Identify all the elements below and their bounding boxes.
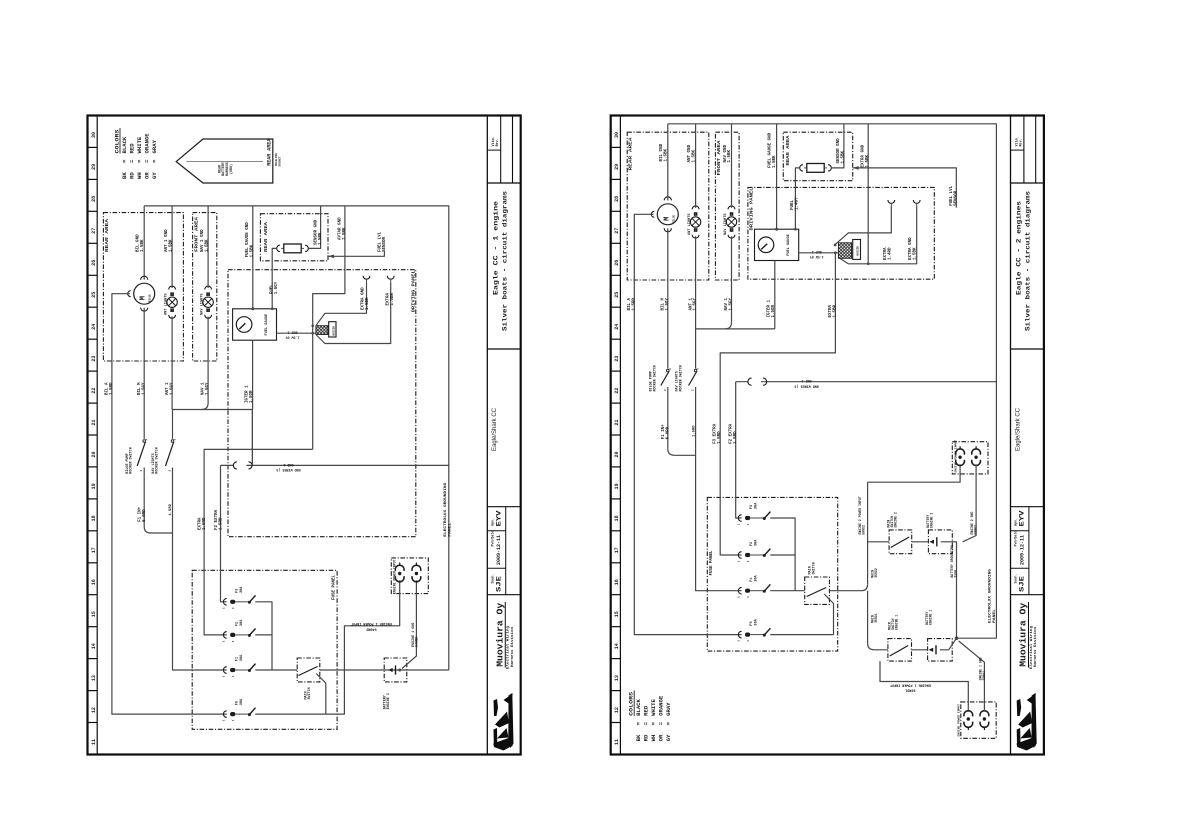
- svg-text:ANT LIGHTS: ANT LIGHTS: [165, 293, 169, 315]
- svg-text:FUEL GAUGE: FUEL GAUGE: [265, 313, 269, 335]
- svg-text:1.5BK: 1.5BK: [914, 247, 918, 260]
- svg-text:EXTRA GND: EXTRA GND: [362, 287, 366, 310]
- svg-text:RED: RED: [643, 705, 650, 716]
- svg-text:2x50: 2x50: [953, 570, 957, 578]
- svg-text:REAR AREA: REAR AREA: [265, 221, 269, 252]
- svg-text:Suun.: Suun.: [1014, 574, 1018, 584]
- svg-text:ENGINE POWER INPUT: ENGINE POWER INPUT: [393, 559, 397, 594]
- svg-text:19: 19: [91, 483, 97, 489]
- svg-text:12: 12: [614, 707, 620, 713]
- svg-text:EXTRA GND: EXTRA GND: [862, 144, 866, 167]
- svg-text:GY: GY: [665, 734, 672, 741]
- svg-text:BLACK: BLACK: [635, 698, 642, 715]
- svg-text:EXTRA GND: EXTRA GND: [909, 237, 913, 260]
- svg-text:Eagle CC - 1 engine: Eagle CC - 1 engine: [493, 201, 500, 295]
- svg-text:Rev.: Rev.: [496, 138, 500, 146]
- svg-text:Eagle CC - 2 engines: Eagle CC - 2 engines: [1016, 201, 1023, 295]
- svg-text:BK: BK: [635, 734, 642, 741]
- svg-text:FUEL LVL: FUEL LVL: [379, 231, 383, 252]
- svg-text:ELECTROLUX GROUNDING: ELECTROLUX GROUNDING: [444, 483, 448, 537]
- svg-text:SENSOR GND: SENSOR GND: [315, 219, 319, 245]
- svg-text:30A: 30A: [755, 574, 759, 581]
- svg-text:29: 29: [614, 164, 620, 170]
- svg-text:50BK2: 50BK2: [974, 525, 978, 535]
- svg-text:EXTRA: EXTRA: [884, 247, 888, 260]
- svg-text:30A: 30A: [240, 619, 244, 626]
- svg-text:16: 16: [91, 579, 97, 585]
- svg-text:Pvm/Date: Pvm/Date: [490, 531, 494, 547]
- svg-text:ENGINE 2: ENGINE 2: [894, 512, 898, 527]
- svg-text:ORANGE: ORANGE: [658, 695, 665, 716]
- svg-text:WH: WH: [650, 735, 657, 742]
- svg-text:F5: F5: [750, 621, 754, 625]
- svg-text:6.0RD: 6.0RD: [143, 509, 147, 522]
- svg-text:Silver boats - circuit diagram: Silver boats - circuit diagrams: [1025, 191, 1032, 331]
- svg-text:GRAY: GRAY: [151, 139, 158, 153]
- svg-text:WHITE: WHITE: [136, 136, 143, 153]
- svg-text:SENSOR: SENSOR: [383, 236, 387, 252]
- svg-text:2009-12-11: 2009-12-11: [495, 534, 502, 565]
- svg-text:F3: F3: [750, 505, 754, 509]
- svg-text:20: 20: [614, 451, 620, 457]
- svg-text:20: 20: [91, 451, 97, 457]
- svg-text:1.5BK: 1.5BK: [169, 239, 173, 252]
- svg-text:28: 28: [91, 196, 97, 202]
- svg-text:SJE: SJE: [1019, 576, 1026, 592]
- svg-text:Pvm/Date: Pvm/Date: [1014, 531, 1018, 547]
- svg-text:25: 25: [91, 292, 97, 298]
- svg-text:EXTRA: EXTRA: [829, 304, 833, 317]
- svg-text:1.5BK: 1.5BK: [366, 297, 370, 310]
- svg-text:1.5BK: 1.5BK: [319, 232, 323, 245]
- svg-text:REAR AREA: REAR AREA: [267, 138, 273, 166]
- svg-text:ANT LIGHTS: ANT LIGHTS: [688, 213, 692, 235]
- svg-text:ENGINE 1: ENGINE 1: [895, 615, 899, 630]
- svg-text:17: 17: [91, 547, 97, 553]
- svg-text:GND WIRES (3: GND WIRES (3: [276, 467, 300, 472]
- svg-text:ENGINE 1: ENGINE 1: [929, 610, 933, 625]
- svg-text:FRONT AREA: FRONT AREA: [194, 217, 200, 252]
- svg-text:1.5BK: 1.5BK: [866, 154, 870, 167]
- svg-text:1.5GY: 1.5GY: [142, 382, 146, 395]
- svg-text:1.5GY: 1.5GY: [694, 297, 698, 310]
- svg-text:F2 EXTRA: F2 EXTRA: [215, 509, 219, 530]
- svg-text:IGTER 1: IGTER 1: [768, 299, 772, 317]
- svg-text:1.4GY: 1.4GY: [796, 197, 800, 210]
- svg-text:BIL M: BIL M: [662, 297, 666, 310]
- svg-text:Apv.: Apv.: [1014, 518, 1018, 526]
- svg-text:2009-12-11: 2009-12-11: [1018, 534, 1025, 565]
- svg-text:BUZZER: BUZZER: [857, 246, 860, 256]
- svg-text:DRIVING PANEL: DRIVING PANEL: [749, 187, 755, 230]
- svg-text:ELECTROLUX GROUNDING: ELECTROLUX GROUNDING: [989, 569, 993, 623]
- svg-text:FUSE PANEL: FUSE PANEL: [331, 575, 337, 600]
- svg-text:PANEL: PANEL: [993, 609, 997, 623]
- svg-text:1.5BK: 1.5BK: [205, 239, 209, 252]
- svg-text:NAV LIGHTS: NAV LIGHTS: [201, 293, 205, 315]
- svg-text:1.5RD: 1.5RD: [734, 431, 738, 444]
- svg-text:ANT 1: ANT 1: [166, 382, 170, 395]
- svg-text:FUEL GAUGE GND: FUEL GAUGE GND: [769, 132, 773, 168]
- svg-text:1.5W GY: 1.5W GY: [286, 336, 300, 340]
- svg-text:BUZ 1: BUZ 1: [812, 250, 822, 254]
- svg-text:IGTER 1: IGTER 1: [246, 385, 250, 403]
- svg-text:BIL A: BIL A: [106, 382, 110, 395]
- svg-text:SOCKET: SOCKET: [279, 156, 282, 166]
- svg-text:30A: 30A: [755, 502, 759, 509]
- svg-text:Eagle/Shark CC: Eagle/Shark CC: [1015, 407, 1021, 451]
- svg-text:16: 16: [614, 579, 620, 585]
- svg-text:DRIVING PANEL: DRIVING PANEL: [411, 270, 417, 312]
- svg-text:30A: 30A: [240, 654, 244, 661]
- svg-text:F3: F3: [236, 589, 240, 593]
- svg-text:ROCKER SWITCH: ROCKER SWITCH: [679, 365, 683, 391]
- svg-text:1.5BK: 1.5BK: [773, 155, 777, 168]
- svg-text:1.5BK: 1.5BK: [250, 244, 254, 257]
- svg-text:26: 26: [91, 260, 97, 266]
- svg-text:50RD2: 50RD2: [862, 525, 866, 535]
- svg-text:1.5BK: 1.5BK: [842, 150, 846, 163]
- svg-text:EYV: EYV: [1019, 510, 1026, 526]
- svg-text:1.5GY: 1.5GY: [170, 382, 174, 395]
- svg-text:SENSOR: SENSOR: [955, 190, 959, 206]
- svg-text:FUSE PANEL: FUSE PANEL: [708, 550, 714, 575]
- svg-text:15: 15: [91, 611, 97, 617]
- svg-text:OR: OR: [144, 172, 151, 179]
- svg-text:SWITCH: SWITCH: [812, 562, 816, 574]
- svg-text:NAV LIGHTS: NAV LIGHTS: [724, 213, 728, 235]
- svg-text:F1 IN+: F1 IN+: [139, 506, 143, 522]
- svg-text:21: 21: [91, 419, 97, 425]
- svg-text:WHITE: WHITE: [650, 698, 657, 715]
- svg-text:BIL GND: BIL GND: [137, 234, 141, 252]
- svg-text:26: 26: [614, 260, 620, 266]
- svg-text:540BK: 540BK: [416, 636, 420, 647]
- svg-text:FUEL: FUEL: [271, 284, 275, 295]
- svg-text:18: 18: [614, 515, 620, 521]
- svg-text:50BK1: 50BK1: [982, 671, 986, 681]
- svg-text:25: 25: [614, 292, 620, 298]
- svg-text:1.5RD: 1.5RD: [203, 517, 207, 530]
- svg-text:BIL A: BIL A: [628, 297, 632, 310]
- svg-text:15: 15: [614, 611, 620, 617]
- svg-text:ENGINE 1 POWER INPUT: ENGINE 1 POWER INPUT: [890, 682, 931, 686]
- svg-text:30A: 30A: [240, 586, 244, 593]
- svg-text:1.5RD: 1.5RD: [718, 431, 722, 444]
- svg-text:GND WIRES (3: GND WIRES (3: [794, 383, 818, 388]
- svg-text:14: 14: [91, 643, 97, 649]
- svg-text:Eagle/Shark CC: Eagle/Shark CC: [492, 407, 498, 451]
- svg-text:28: 28: [614, 196, 620, 202]
- svg-text:1.5BR: 1.5BR: [834, 304, 838, 317]
- svg-text:ROCKER SWITCH: ROCKER SWITCH: [130, 447, 134, 473]
- svg-text:29: 29: [91, 164, 97, 170]
- svg-text:M: M: [140, 296, 148, 300]
- svg-text:REAR AREA: REAR AREA: [787, 135, 791, 166]
- svg-text:F5: F5: [236, 701, 240, 705]
- svg-text:ENGINE POWER INPUT: ENGINE POWER INPUT: [955, 440, 958, 473]
- svg-text:24: 24: [91, 324, 97, 330]
- svg-text:GY: GY: [151, 172, 158, 179]
- svg-text:COLORS: COLORS: [628, 691, 635, 716]
- svg-text:SJE: SJE: [496, 576, 503, 592]
- svg-text:1.4RD: 1.4RD: [889, 247, 893, 260]
- svg-text:1.5BK: 1.5BK: [343, 227, 347, 240]
- svg-text:NAV 1 GND: NAV 1 GND: [201, 229, 205, 252]
- svg-text:11: 11: [91, 739, 97, 745]
- svg-text:EXTRA: EXTRA: [387, 292, 391, 305]
- svg-text:12: 12: [91, 707, 97, 713]
- svg-text:BILGE: BILGE: [149, 294, 152, 302]
- svg-text:F3 EXTRA: F3 EXTRA: [714, 423, 718, 444]
- svg-text:30: 30: [614, 132, 620, 138]
- svg-text:RED: RED: [129, 143, 136, 154]
- svg-text:ENGINE 2: ENGINE 2: [929, 513, 933, 528]
- svg-text:F2 EXTRA: F2 EXTRA: [730, 423, 734, 444]
- svg-text:35RD1: 35RD1: [874, 613, 878, 623]
- svg-text:30: 30: [91, 132, 97, 138]
- svg-text:11: 11: [614, 739, 620, 745]
- svg-text:1.5GR: 1.5GR: [772, 304, 776, 317]
- svg-text:NAV 1: NAV 1: [725, 297, 729, 310]
- svg-text:Suun.: Suun.: [490, 574, 494, 584]
- svg-text:BUZZER: BUZZER: [333, 326, 336, 336]
- svg-text:1.5BK: 1.5BK: [692, 149, 696, 162]
- svg-text:WH: WH: [136, 172, 143, 179]
- svg-text:(GRO): (GRO): [229, 164, 233, 174]
- svg-text:NAV 1: NAV 1: [202, 382, 206, 395]
- svg-text:FUEL: FUEL: [791, 199, 795, 210]
- svg-text:22: 22: [614, 388, 620, 394]
- svg-text:FRONT AREA: FRONT AREA: [716, 140, 722, 175]
- svg-text:SWITCH: SWITCH: [308, 687, 312, 699]
- svg-text:6.0RD: 6.0RD: [667, 426, 671, 439]
- svg-text:1.5RD: 1.5RD: [110, 382, 114, 395]
- svg-text:1.5RD: 1.5RD: [693, 425, 697, 437]
- svg-text:1.5GY: 1.5GY: [275, 281, 279, 294]
- svg-text:23: 23: [614, 356, 620, 362]
- svg-text:30A: 30A: [755, 539, 759, 546]
- svg-text:M: M: [663, 217, 671, 221]
- svg-text:50RD1: 50RD1: [905, 688, 915, 692]
- svg-text:F1: F1: [236, 657, 240, 661]
- svg-text:1.5GY: 1.5GY: [730, 297, 734, 310]
- svg-text:REAR AREA: REAR AREA: [628, 137, 634, 170]
- svg-text:Muoviura Oy: Muoviura Oy: [495, 603, 506, 667]
- svg-text:REAR AREA: REAR AREA: [104, 219, 110, 252]
- svg-text:RD: RD: [129, 172, 136, 179]
- svg-text:SENSOR GND: SENSOR GND: [837, 138, 841, 164]
- svg-text:19: 19: [614, 483, 620, 489]
- svg-text:Apv.: Apv.: [490, 518, 494, 526]
- svg-text:F2: F2: [750, 542, 754, 546]
- svg-text:17: 17: [614, 547, 620, 553]
- svg-text:FUEL GAUGE GND: FUEL GAUGE GND: [246, 222, 250, 258]
- svg-text:Harness Division: Harness Division: [1033, 626, 1038, 667]
- svg-text:BILGE: BILGE: [672, 214, 675, 222]
- svg-text:F1 IN+: F1 IN+: [662, 424, 666, 440]
- svg-text:30A: 30A: [755, 618, 759, 625]
- svg-text:GND 1: GND 1: [283, 462, 293, 466]
- svg-text:GRAY: GRAY: [665, 702, 672, 716]
- svg-text:COLORS: COLORS: [114, 129, 121, 154]
- svg-text:AVTAR GND: AVTAR GND: [339, 217, 343, 240]
- svg-text:ANT 1: ANT 1: [689, 297, 693, 310]
- svg-text:Muoviura Oy: Muoviura Oy: [1018, 603, 1029, 667]
- svg-text:540RD: 540RD: [366, 626, 376, 630]
- svg-text:BIL M: BIL M: [138, 382, 142, 395]
- svg-text:ROCKER SWITCH: ROCKER SWITCH: [156, 447, 160, 473]
- svg-text:1.5RD: 1.5RD: [219, 517, 223, 530]
- svg-text:1.5RD: 1.5RD: [169, 503, 173, 515]
- svg-text:RD: RD: [643, 734, 650, 741]
- svg-text:14: 14: [614, 643, 620, 649]
- svg-text:13: 13: [614, 675, 620, 681]
- svg-text:35RD2: 35RD2: [874, 568, 878, 578]
- svg-text:1.5GY: 1.5GY: [206, 382, 210, 395]
- svg-text:ENGINE 1: ENGINE 1: [387, 693, 391, 709]
- svg-text:1.5BK: 1.5BK: [728, 149, 732, 162]
- svg-text:FUEL LVL: FUEL LVL: [950, 185, 954, 206]
- svg-text:ROCKER SWITCH: ROCKER SWITCH: [653, 365, 657, 391]
- svg-text:1.5BK: 1.5BK: [665, 148, 669, 161]
- svg-text:27: 27: [614, 228, 620, 234]
- svg-text:PANEL: PANEL: [448, 523, 452, 537]
- svg-text:EXTRA: EXTRA: [199, 517, 203, 530]
- svg-text:Silver boats - circuit diagram: Silver boats - circuit diagrams: [501, 191, 508, 331]
- svg-text:BUZ 1: BUZ 1: [288, 330, 298, 334]
- svg-text:24: 24: [614, 324, 620, 330]
- svg-text:23: 23: [91, 356, 97, 362]
- svg-text:22: 22: [91, 388, 97, 394]
- svg-text:ORANGE: ORANGE: [144, 133, 151, 154]
- svg-text:27: 27: [91, 228, 97, 234]
- svg-text:F2: F2: [236, 622, 240, 626]
- svg-text:ANT GND: ANT GND: [688, 144, 692, 162]
- svg-text:1.5BR: 1.5BR: [391, 292, 395, 305]
- svg-text:13: 13: [91, 675, 97, 681]
- svg-text:1.5BK: 1.5BK: [141, 239, 145, 252]
- svg-text:ENGINE 1 POWER INPUT: ENGINE 1 POWER INPUT: [351, 621, 392, 625]
- svg-text:ENGINE POWER INPUT: ENGINE POWER INPUT: [958, 704, 961, 737]
- svg-text:FUEL GAUGE: FUEL GAUGE: [787, 233, 791, 255]
- svg-text:EYV: EYV: [496, 510, 503, 526]
- svg-text:18: 18: [91, 515, 97, 521]
- svg-text:30A: 30A: [240, 698, 244, 705]
- svg-text:1.5W GY: 1.5W GY: [810, 255, 824, 259]
- svg-text:21: 21: [614, 419, 620, 425]
- svg-text:1.5GY: 1.5GY: [666, 297, 670, 310]
- svg-text:Rev.: Rev.: [1019, 138, 1023, 146]
- svg-text:Harness Division: Harness Division: [510, 626, 515, 667]
- svg-text:BLACK: BLACK: [121, 136, 128, 153]
- svg-text:ANT 1 GND: ANT 1 GND: [165, 229, 169, 252]
- svg-text:GND 1: GND 1: [802, 378, 812, 382]
- svg-text:1.5RD: 1.5RD: [632, 297, 636, 310]
- svg-text:OR: OR: [658, 734, 665, 741]
- svg-text:BK: BK: [121, 172, 128, 179]
- svg-text:NAV GND: NAV GND: [724, 144, 728, 162]
- svg-text:1.5GR: 1.5GR: [250, 390, 254, 403]
- svg-text:BIL GND: BIL GND: [660, 143, 664, 161]
- svg-text:F1: F1: [750, 577, 754, 581]
